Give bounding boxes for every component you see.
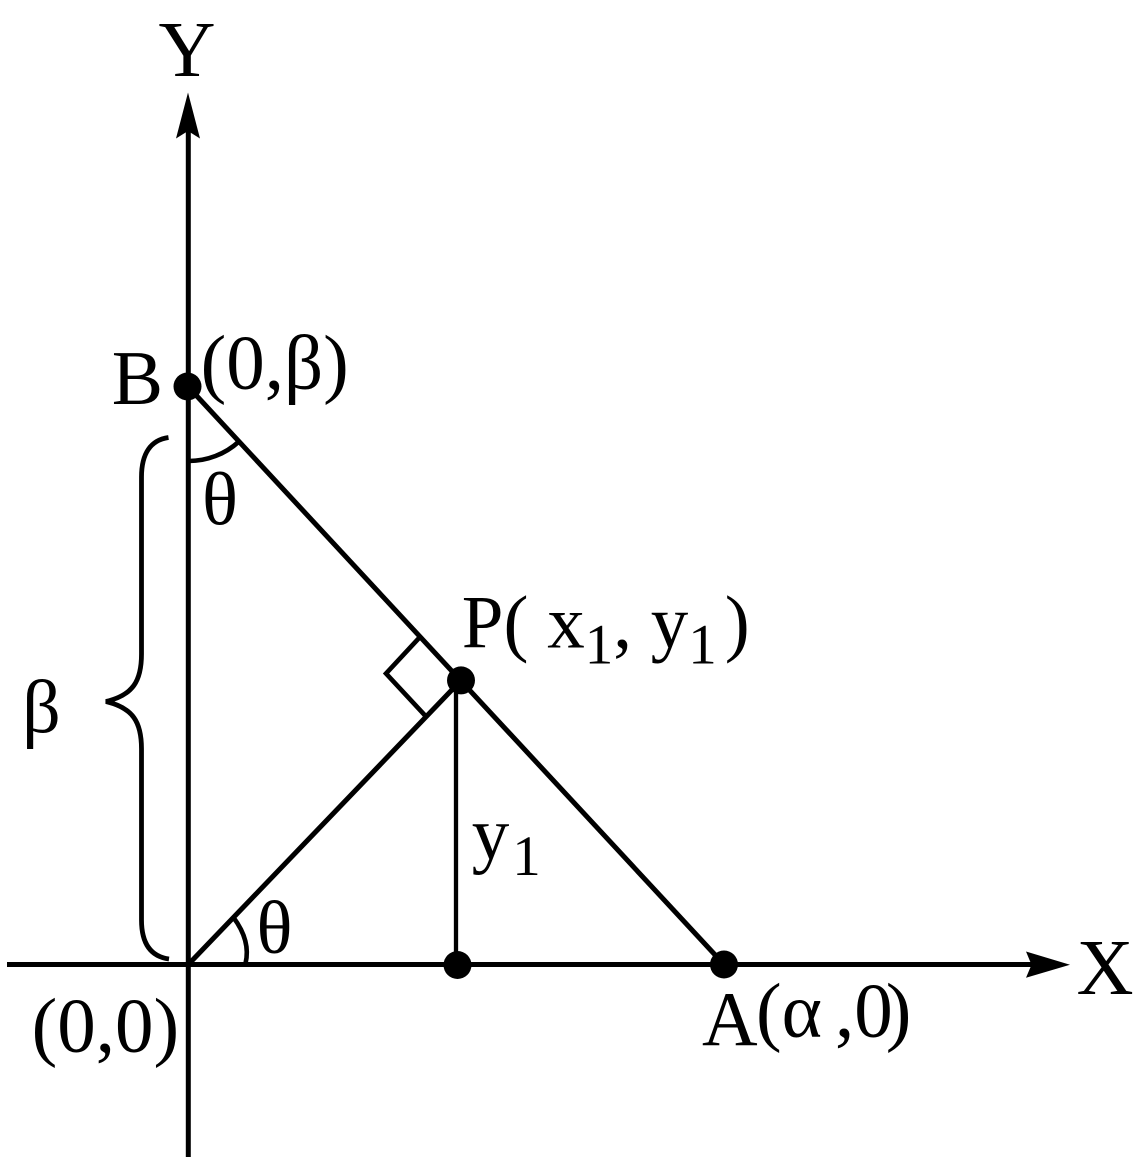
node P dot <box>447 666 475 694</box>
y-axis arrowhead <box>176 93 200 139</box>
right-angle mark at P <box>386 638 426 717</box>
wire: line O to P (perpendicular from origin) <box>188 680 461 964</box>
node A dot <box>710 951 738 979</box>
x-axis <box>7 962 1038 967</box>
y-axis <box>186 128 191 1157</box>
wire: line B to A (hypotenuse) <box>188 387 724 965</box>
svg-text:θ: θ <box>202 458 238 541</box>
svg-text:X: X <box>1076 925 1133 1012</box>
node foot-of-perpendicular dot <box>444 951 472 979</box>
svg-text:(0,0): (0,0) <box>32 983 180 1069</box>
angle arc theta at origin <box>234 918 247 964</box>
node B dot <box>174 373 202 401</box>
svg-text:Y: Y <box>158 7 215 94</box>
svg-text:(0,β): (0,β) <box>201 320 349 406</box>
curly brace for beta span <box>106 438 169 960</box>
svg-text:β: β <box>22 666 61 750</box>
svg-text:A: A <box>702 976 758 1062</box>
angle arc theta at B <box>188 442 239 462</box>
svg-text:θ: θ <box>257 887 293 970</box>
svg-text:B: B <box>112 335 163 421</box>
x-axis arrowhead <box>1026 952 1070 978</box>
wire: vertical segment P to foot <box>454 680 458 964</box>
